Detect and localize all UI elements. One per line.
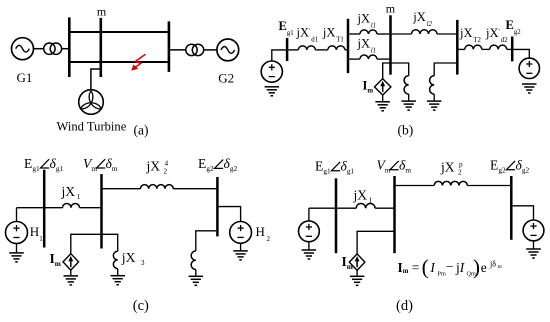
ground [233,251,248,260]
wire [217,207,240,222]
svg-text:): ) [473,255,480,279]
fault lightning [131,54,145,71]
wire [272,50,286,61]
ground [9,253,24,262]
svg-text:G1: G1 [17,70,33,85]
bus left (a) [68,17,71,77]
inductor shunt 1 (b) [404,76,409,94]
wire [482,48,490,50]
wire [288,49,298,51]
wire [169,49,186,51]
inductor shunt right (c) [191,251,196,270]
wire [80,207,102,209]
inductor jX2 (c) [141,185,174,189]
voltage source Eg1 (d) [299,221,320,242]
ground [526,249,541,258]
svg-text:jX42: jX42 [146,158,169,175]
inductor jX3 (c) [113,251,117,268]
wire [467,185,511,187]
ground [350,276,365,285]
wire [195,270,197,277]
wire [117,269,119,276]
wire [513,49,529,58]
current source Im (c) [63,254,79,270]
svg-text:e: e [481,260,487,275]
wire [34,48,44,50]
bus right (d) [510,176,513,240]
svg-text:m: m [97,5,107,19]
ground [522,84,537,93]
generator G1 [12,38,34,60]
wire [309,207,356,209]
bus left (b) [347,19,350,73]
svg-text:Wind Turbine: Wind Turbine [57,120,127,134]
inductor jX2 (d) [434,181,467,185]
inductor jX'd1 [298,46,315,50]
inductor jXl2 [412,30,438,34]
wire [507,48,511,50]
inductor jX1 (c) [63,203,80,207]
wire [382,95,384,101]
wire [437,33,456,35]
wire [315,49,327,51]
terminal bar Eg2 [511,37,514,62]
wire line top (a) [69,31,169,33]
label Vm angle dm (c) [83,156,118,173]
svg-text:jXp2: jXp2 [440,159,463,176]
svg-text:(b): (b) [398,123,414,138]
wire [459,48,465,50]
ground [111,276,126,285]
wire [62,48,68,50]
label Eg2 angle dg2 (c) [198,156,237,173]
wire [433,94,435,101]
svg-text:=: = [412,260,420,275]
wire [434,63,456,76]
bus m (c) [100,174,103,249]
wind turbine [79,90,104,115]
ground [401,101,416,110]
ground [189,276,204,285]
wire [533,241,535,249]
label Vm angle dm (d) [377,158,412,175]
transformer T1 [44,43,62,54]
wire line bottom (a) [69,61,169,63]
wire [308,208,310,221]
ground [265,87,280,96]
wire [408,94,410,101]
wire [383,63,409,79]
inductor jXl1 bottom [360,55,377,59]
wire [377,33,389,35]
generator G2 [217,39,239,61]
wire [392,33,412,35]
voltage source H2 [230,222,252,244]
label Eg2 angle dg2 (d) [490,158,529,175]
wire [16,208,18,222]
wire [356,270,358,276]
svg-text:G2: G2 [218,71,234,86]
ground [302,250,317,259]
label Eg1 angle dg1 (d) [315,159,354,176]
svg-text:m: m [386,2,396,16]
bus m (b) [389,15,392,74]
wire [308,242,310,250]
inductor jXl1 top [360,30,377,34]
voltage source Eg2 [519,58,539,78]
wire to wind turbine [91,69,101,90]
bus m (d) [393,176,396,253]
wire [357,231,394,254]
wire [70,270,72,276]
wire [511,206,533,220]
bus right (b) [456,20,459,75]
wire [349,58,360,60]
wire [240,243,242,250]
svg-text:(: ( [422,255,429,279]
formula Im equation (d) [398,255,503,279]
wire [204,49,217,51]
svg-text:m: m [498,264,503,270]
current source Im (b) [375,79,391,95]
svg-text:(d): (d) [396,298,413,314]
label Eg1 angle dg1 (c) [24,156,63,173]
inductor jX1 (d) [356,203,375,208]
wire [395,185,435,187]
bus left (d) [335,178,338,253]
wire [345,49,348,51]
inductor jXT1 [328,46,345,50]
svg-text:jI: jI [455,260,466,275]
bus m (a) [100,18,103,77]
bus right (a) [168,21,171,72]
ground [427,101,442,110]
voltage source Eg2 (d) [523,220,544,241]
bus left (c) [43,170,46,248]
current source Im (d) [349,254,365,270]
svg-text:−: − [446,259,454,274]
wire [173,188,217,190]
wire [375,207,394,209]
transformer T2 [186,44,204,55]
bus right (c) [216,177,219,236]
inductor shunt 2 (b) [430,76,435,94]
wire [17,207,63,209]
inductor jXT2 [465,45,482,49]
inductor jX'd2 [490,45,507,49]
wire [377,58,389,60]
voltage source Eg1 [261,61,282,82]
svg-text:Pm: Pm [438,271,446,278]
ground [64,276,79,285]
wire [16,244,18,253]
terminal bar Eg1 [286,38,289,61]
svg-text:(c): (c) [133,298,149,314]
ground [375,102,390,111]
wire [349,33,360,35]
svg-text:jδ: jδ [489,259,496,268]
wire [102,188,141,190]
voltage source H1 [6,222,28,244]
wire [71,234,118,253]
svg-text:(a): (a) [134,123,149,138]
wire [196,231,216,251]
